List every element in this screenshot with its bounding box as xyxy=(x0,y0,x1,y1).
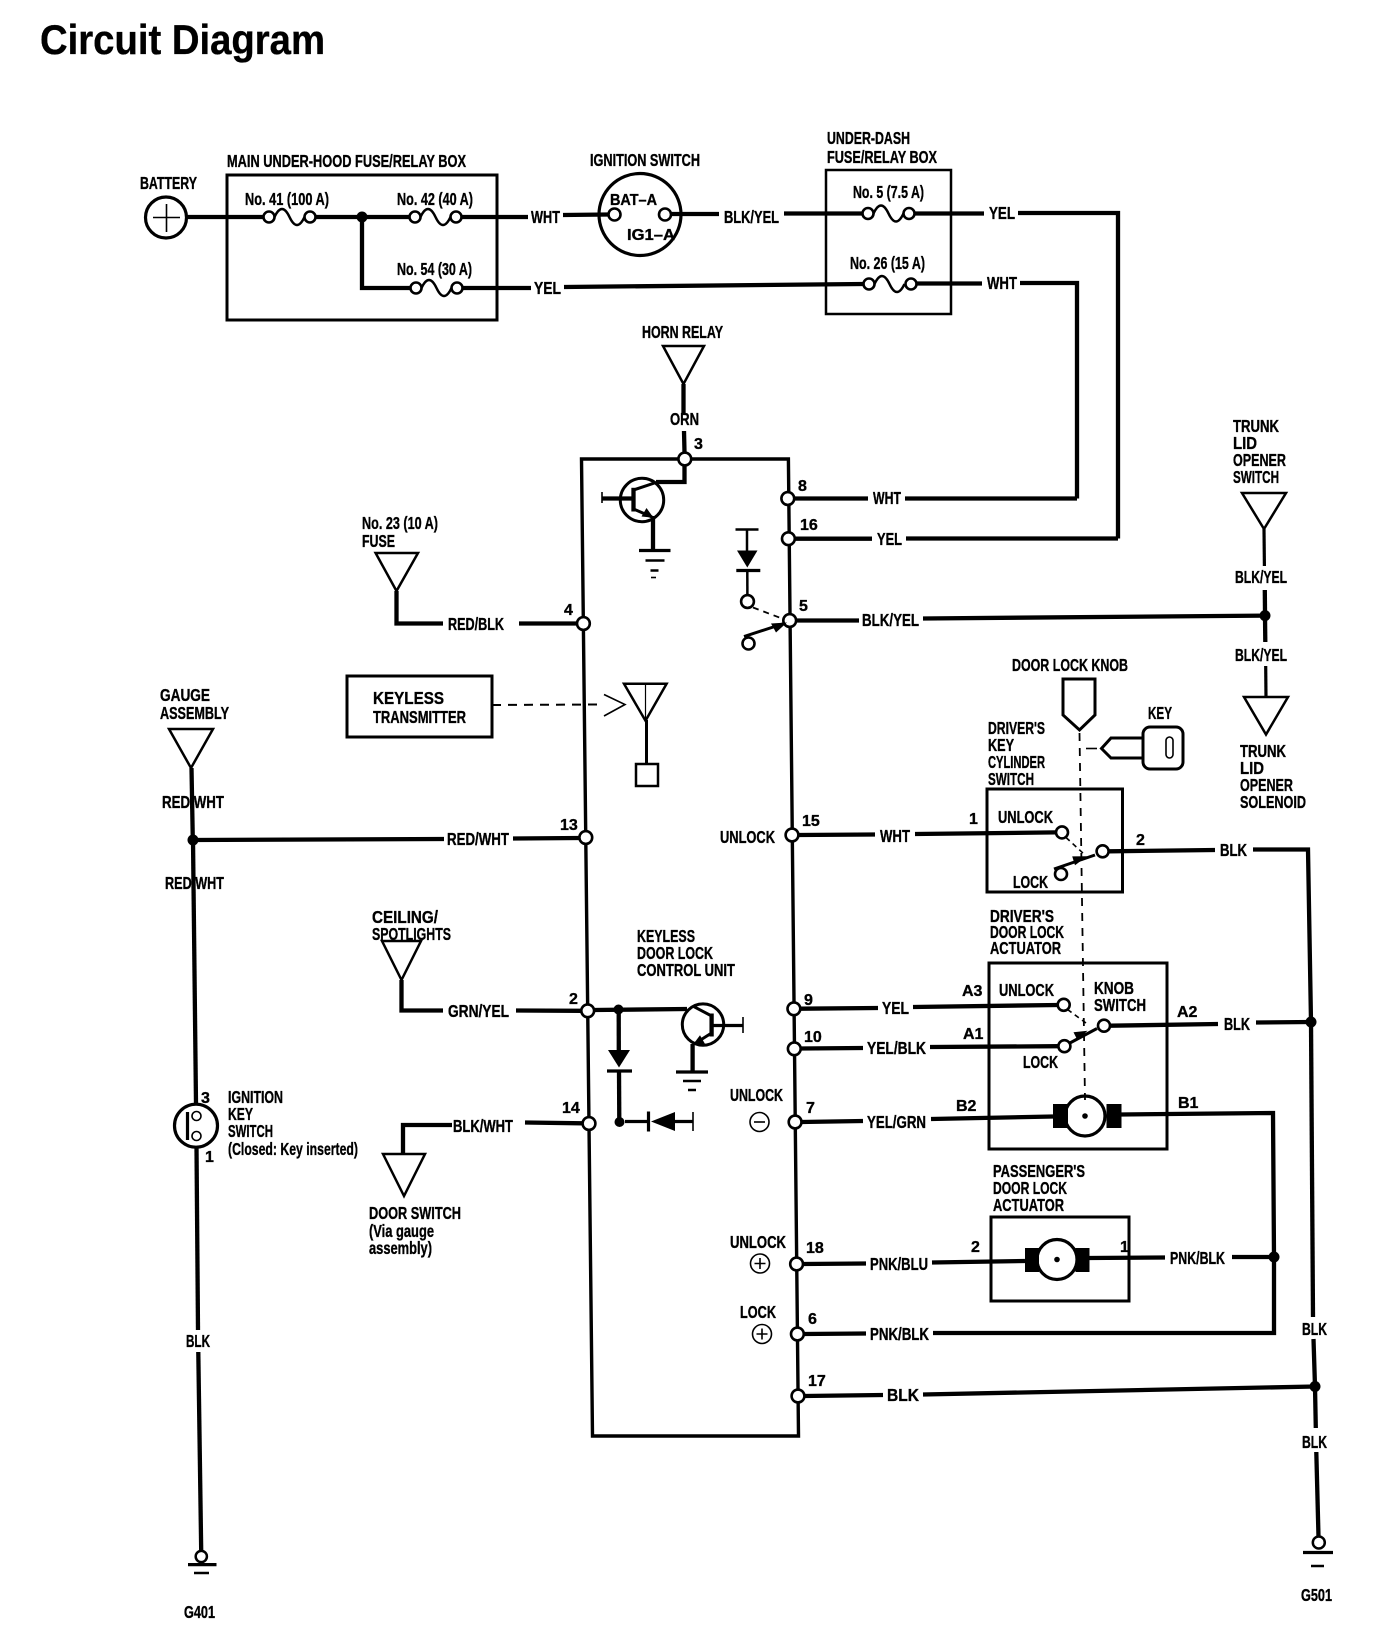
junction dot PNK/BLK xyxy=(1269,1252,1280,1263)
wire node15 WHT to key cylinder pin1 xyxy=(799,832,876,837)
svg-text:BLK/YEL: BLK/YEL xyxy=(862,610,919,630)
svg-text:2: 2 xyxy=(569,991,578,1008)
wire node17 BLK to right vertical xyxy=(804,1395,883,1396)
svg-text:No. 23 (10 A): No. 23 (10 A) xyxy=(362,513,438,533)
node 10 xyxy=(788,1042,801,1055)
svg-text:No. 5 (7.5 A): No. 5 (7.5 A) xyxy=(853,182,924,202)
ground G401 xyxy=(196,1551,207,1562)
svg-text:YEL/BLK: YEL/BLK xyxy=(867,1038,926,1058)
contact lock xyxy=(1055,868,1067,880)
wire RED/BLK to node4 xyxy=(519,621,578,625)
wire gauge stem xyxy=(192,768,193,840)
svg-text:4: 4 xyxy=(564,602,573,619)
svg-text:UNLOCK: UNLOCK xyxy=(999,980,1054,1000)
svg-text:PNK/BLK: PNK/BLK xyxy=(1170,1248,1225,1268)
wire fuse54 to YEL label xyxy=(463,286,532,290)
svg-text:RED/WHT: RED/WHT xyxy=(162,792,224,812)
ground G501 xyxy=(1313,1537,1325,1549)
svg-text:ORN: ORN xyxy=(670,409,699,429)
junction dot node2 line xyxy=(614,1005,624,1015)
keyless transmitter box xyxy=(347,676,492,737)
junction dot trunk xyxy=(1260,610,1271,621)
svg-text:A1: A1 xyxy=(963,1026,984,1043)
node 17 xyxy=(792,1390,805,1403)
svg-text:1: 1 xyxy=(205,1149,214,1166)
junction dot node14 line xyxy=(615,1117,625,1127)
svg-text:Circuit Diagram: Circuit Diagram xyxy=(40,16,325,63)
svg-text:WHT: WHT xyxy=(880,826,910,846)
contact common 2 xyxy=(1097,845,1109,857)
wire Q2 emitter to ground xyxy=(690,1044,694,1071)
svg-text:WHT: WHT xyxy=(873,488,901,508)
wire pin2 BLK to right vertical xyxy=(1109,850,1215,851)
svg-text:2: 2 xyxy=(1136,832,1145,849)
ground Q1 xyxy=(639,549,671,552)
contact lock A1 xyxy=(1058,1040,1070,1052)
svg-text:1: 1 xyxy=(969,811,978,828)
svg-text:A3: A3 xyxy=(962,983,983,1000)
svg-text:BAT–A: BAT–A xyxy=(610,192,657,209)
wire node9 YEL to actuator A3 xyxy=(801,1006,879,1011)
svg-text:A2: A2 xyxy=(1177,1004,1198,1021)
wire node18 PNK/BLU to passenger pin2 xyxy=(803,1261,866,1266)
wire fuse5 to YEL xyxy=(915,211,985,215)
contact unlock A3 xyxy=(1058,999,1070,1011)
svg-text:PNK/BLK: PNK/BLK xyxy=(870,1324,929,1344)
svg-text:UNDER-DASH: UNDER-DASH xyxy=(827,128,910,148)
svg-text:SOLENOID: SOLENOID xyxy=(1240,792,1306,812)
svg-text:G401: G401 xyxy=(184,1602,215,1622)
wire fuse42 to WHT label xyxy=(462,215,529,219)
wire key switch down BLK to ground xyxy=(197,1147,199,1330)
svg-text:PNK/BLU: PNK/BLU xyxy=(870,1254,928,1274)
svg-text:B1: B1 xyxy=(1178,1095,1199,1112)
ground Q2 xyxy=(676,1070,708,1073)
svg-text:LOCK: LOCK xyxy=(1013,872,1048,892)
svg-text:CONTROL UNIT: CONTROL UNIT xyxy=(637,960,735,980)
antenna symbol xyxy=(624,684,667,721)
svg-text:16: 16 xyxy=(800,517,818,534)
wire A2 BLK to right vertical xyxy=(1111,1024,1218,1026)
wire junction down to diode D1 xyxy=(617,1010,621,1051)
node 9 xyxy=(788,1002,801,1015)
svg-text:ACTUATOR: ACTUATOR xyxy=(993,1195,1064,1215)
svg-text:6: 6 xyxy=(808,1311,817,1328)
wire node6 PNK/BLK up to junction xyxy=(804,1331,866,1336)
wire battery to fuse box xyxy=(186,215,265,219)
node 15 xyxy=(786,829,799,842)
wire node5 BLK/YEL to trunk junction xyxy=(797,618,860,622)
svg-text:FUSE/RELAY BOX: FUSE/RELAY BOX xyxy=(827,147,937,167)
wire node16 YEL xyxy=(795,537,872,541)
wire B1 down to passenger junction xyxy=(1121,1113,1274,1257)
svg-text:1: 1 xyxy=(1120,1239,1129,1256)
svg-text:B2: B2 xyxy=(956,1098,977,1115)
svg-text:RED/BLK: RED/BLK xyxy=(448,614,504,634)
wire node7 YEL/GRN to actuator B2 xyxy=(802,1121,864,1122)
svg-text:BLK/YEL: BLK/YEL xyxy=(1235,645,1287,665)
wire ignition to BLK/YEL xyxy=(672,212,720,216)
junction dot gauge xyxy=(188,835,199,846)
wire Q1 emitter to ground xyxy=(651,516,655,550)
svg-text:YEL: YEL xyxy=(877,529,902,549)
svg-text:BLK: BLK xyxy=(887,1385,920,1405)
wire passenger pin1 PNK/BLK to junction xyxy=(1090,1255,1166,1260)
svg-text:10: 10 xyxy=(804,1029,822,1046)
contact unlock xyxy=(1056,826,1068,838)
wire node10 YEL/BLK to actuator A1 xyxy=(801,1046,863,1051)
svg-text:UNLOCK: UNLOCK xyxy=(730,1085,783,1105)
wire trunk switch stem BLK/YEL xyxy=(1262,529,1266,566)
svg-text:BLK: BLK xyxy=(1302,1319,1327,1339)
svg-text:YEL: YEL xyxy=(989,203,1015,223)
svg-text:No. 42 (40 A): No. 42 (40 A) xyxy=(397,189,473,209)
node 3 xyxy=(678,453,691,466)
wire node3 to transistor Q1 xyxy=(656,466,685,483)
node 13 xyxy=(579,831,592,844)
wire fuse23 to RED/BLK xyxy=(397,591,444,624)
svg-text:YEL: YEL xyxy=(882,998,909,1018)
svg-text:KEYLESS: KEYLESS xyxy=(373,688,444,708)
svg-text:UNLOCK: UNLOCK xyxy=(730,1232,786,1252)
transistor Q1 xyxy=(620,478,663,521)
wire spotlights to GRN/YEL xyxy=(402,980,444,1011)
wire junction to fuse42 xyxy=(362,215,410,219)
svg-text:SWITCH: SWITCH xyxy=(228,1121,273,1141)
svg-text:BLK: BLK xyxy=(1302,1432,1327,1452)
node 2 xyxy=(581,1004,594,1017)
svg-text:IGNITION SWITCH: IGNITION SWITCH xyxy=(590,150,700,170)
svg-text:No. 26 (15 A): No. 26 (15 A) xyxy=(850,253,925,273)
svg-text:DOOR LOCK KNOB: DOOR LOCK KNOB xyxy=(1012,655,1128,675)
switch arm node5 xyxy=(744,624,784,637)
svg-text:YEL: YEL xyxy=(534,278,561,298)
svg-text:2: 2 xyxy=(971,1239,980,1256)
svg-text:18: 18 xyxy=(806,1240,824,1257)
svg-text:FUSE: FUSE xyxy=(362,531,395,551)
svg-text:YEL/GRN: YEL/GRN xyxy=(867,1112,926,1132)
transistor Q2 xyxy=(682,1004,723,1045)
junction dot main box xyxy=(357,212,368,223)
junction dot node17 BLK xyxy=(1310,1381,1321,1392)
contact common A2 xyxy=(1098,1020,1110,1032)
node 14 xyxy=(583,1117,596,1130)
svg-text:No. 54 (30 A): No. 54 (30 A) xyxy=(397,259,472,279)
svg-text:BATTERY: BATTERY xyxy=(140,173,197,193)
svg-text:DOOR SWITCH: DOOR SWITCH xyxy=(369,1203,461,1223)
svg-text:LOCK: LOCK xyxy=(740,1302,776,1322)
trunk lid opener solenoid xyxy=(1244,697,1288,735)
svg-text:13: 13 xyxy=(560,817,578,834)
svg-text:BLK/YEL: BLK/YEL xyxy=(1235,567,1287,587)
wire fuse26 to WHT xyxy=(917,281,983,285)
right BLK vertical to ground xyxy=(1311,1022,1313,1317)
wire YEL long to under-dash box fuse26 xyxy=(564,284,864,287)
svg-text:BLK: BLK xyxy=(1220,840,1247,860)
svg-text:17: 17 xyxy=(808,1373,826,1390)
wire fuse41 to junction xyxy=(316,215,363,219)
svg-text:BLK: BLK xyxy=(186,1331,210,1351)
diode D2 horizontal at node14 xyxy=(625,1120,648,1123)
svg-text:RED/WHT: RED/WHT xyxy=(165,873,224,893)
svg-text:MAIN UNDER-HOOD FUSE/RELAY BOX: MAIN UNDER-HOOD FUSE/RELAY BOX xyxy=(227,151,466,171)
svg-text:3: 3 xyxy=(694,436,703,453)
node 6 xyxy=(791,1328,804,1341)
dashed arrow to antenna xyxy=(492,704,600,707)
svg-text:SWITCH: SWITCH xyxy=(1233,467,1279,487)
svg-text:HORN RELAY: HORN RELAY xyxy=(642,322,723,342)
svg-text:ASSEMBLY: ASSEMBLY xyxy=(160,703,229,723)
diode D1 xyxy=(608,1050,630,1068)
svg-text:GAUGE: GAUGE xyxy=(160,685,210,705)
wire WHT to ignition switch xyxy=(563,212,609,217)
wire gauge line down to key switch xyxy=(193,840,196,1104)
node 4 xyxy=(577,617,590,630)
svg-text:15: 15 xyxy=(802,813,820,830)
svg-text:RED/WHT: RED/WHT xyxy=(447,829,509,849)
svg-text:TRANSMITTER: TRANSMITTER xyxy=(373,707,466,727)
diode D3 and switch at node 5 xyxy=(736,528,759,531)
node 18 xyxy=(790,1258,803,1271)
svg-text:KEY: KEY xyxy=(1148,703,1172,723)
svg-text:BLK/YEL: BLK/YEL xyxy=(724,207,779,227)
wire node2 to transistor Q2 xyxy=(594,1009,687,1010)
svg-text:ACTUATOR: ACTUATOR xyxy=(990,938,1061,958)
svg-text:G501: G501 xyxy=(1301,1585,1332,1605)
svg-text:8: 8 xyxy=(798,478,807,495)
motor passenger actuator xyxy=(1037,1240,1077,1280)
svg-text:14: 14 xyxy=(562,1100,580,1117)
wire ORN stem xyxy=(681,384,685,413)
svg-text:GRN/YEL: GRN/YEL xyxy=(448,1001,509,1021)
wire YEL right and down to node16 xyxy=(1018,213,1118,539)
svg-text:BLK: BLK xyxy=(1224,1014,1250,1034)
node 5 xyxy=(783,614,796,627)
svg-text:5: 5 xyxy=(799,598,808,615)
wire to trunk solenoid xyxy=(1263,616,1268,642)
wire junction down to fuse54 xyxy=(362,217,411,288)
junction dot A2 xyxy=(1306,1017,1317,1028)
wire RED/WHT to node13 xyxy=(193,839,444,840)
switch arm key cylinder xyxy=(1054,855,1095,869)
svg-text:BLK/WHT: BLK/WHT xyxy=(453,1116,513,1136)
wire node8 WHT xyxy=(795,496,869,500)
wire BLK/YEL to under-dash box fuse5 xyxy=(784,211,863,215)
wire GRN/YEL to node2 xyxy=(516,1008,581,1013)
svg-text:No. 41 (100 A): No. 41 (100 A) xyxy=(245,189,329,209)
svg-text:WHT: WHT xyxy=(987,273,1017,293)
node 16 xyxy=(782,532,795,545)
keyless door lock control unit box xyxy=(582,459,799,1436)
svg-text:UNLOCK: UNLOCK xyxy=(720,827,775,847)
svg-text:SWITCH: SWITCH xyxy=(1094,995,1146,1015)
motor driver actuator xyxy=(1065,1096,1105,1136)
wire BLK/WHT to node14 xyxy=(525,1120,583,1125)
svg-text:LOCK: LOCK xyxy=(1023,1052,1058,1072)
wire WHT right and down to node8 xyxy=(1020,283,1077,499)
svg-text:UNLOCK: UNLOCK xyxy=(998,807,1053,827)
node 8 xyxy=(781,492,794,505)
node 7 xyxy=(789,1116,802,1129)
door switch xyxy=(383,1154,425,1196)
svg-text:assembly): assembly) xyxy=(369,1238,432,1258)
svg-text:WHT: WHT xyxy=(531,207,560,227)
switch arm knob switch xyxy=(1068,1029,1097,1045)
svg-text:(Closed: Key inserted): (Closed: Key inserted) xyxy=(228,1139,358,1159)
dashed linkage knob to actuator xyxy=(1080,733,1086,1100)
svg-text:7: 7 xyxy=(806,1100,815,1117)
svg-text:IG1–A: IG1–A xyxy=(627,227,675,244)
svg-text:SWITCH: SWITCH xyxy=(988,769,1034,789)
